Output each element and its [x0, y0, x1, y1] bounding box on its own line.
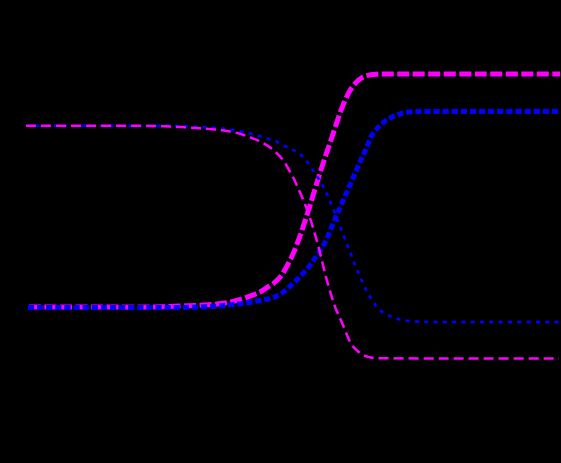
thin magenta dashed falling sigmoid [26, 126, 559, 359]
thick blue short-dashed rising sigmoid [26, 111, 560, 307]
thin blue dotted falling sigmoid [26, 126, 560, 322]
thick magenta long-dashed rising sigmoid [26, 74, 560, 307]
